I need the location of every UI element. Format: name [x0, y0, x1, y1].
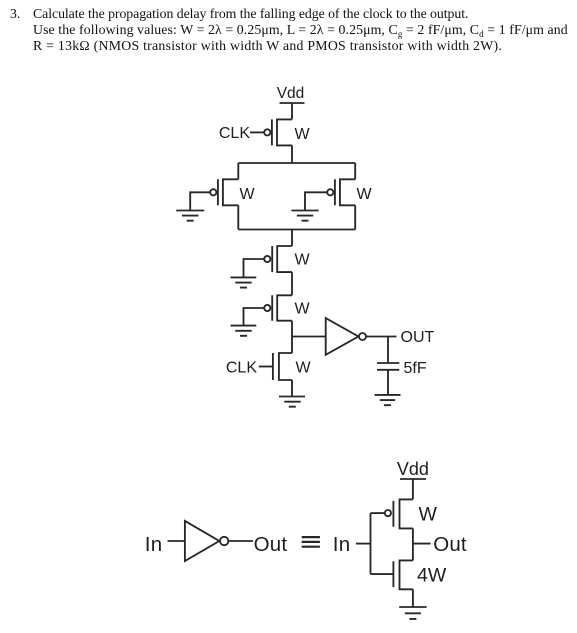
wire MN source to ground	[412, 589, 414, 607]
svg-text:W: W	[240, 186, 256, 203]
top rail wire	[238, 162, 355, 164]
ground (capacitor)	[375, 395, 401, 405]
svg-text:W: W	[419, 504, 438, 526]
wire rail to M4	[291, 230, 293, 247]
wire M5 to M6 / node X	[291, 321, 293, 353]
ground (M2 gate)	[176, 211, 204, 221]
svg-text:W: W	[295, 301, 311, 318]
svg-text:W: W	[296, 360, 312, 377]
svg-text:Vdd: Vdd	[277, 85, 305, 102]
svg-text:CLK: CLK	[219, 125, 250, 142]
transistor MP (PMOS, W)	[371, 499, 413, 528]
wire gate vertical	[370, 513, 372, 574]
ground (M3 gate)	[292, 211, 319, 221]
svg-text:5fF: 5fF	[404, 360, 427, 377]
transistor M2 (left PMOS, grounded gate, W)	[190, 179, 238, 210]
transistor M1 (PMOS, CLK gate, W)	[250, 119, 292, 145]
Vdd supply symbol (top figure)	[277, 85, 305, 119]
wire left branch lower	[237, 205, 239, 229]
wire In to inverter	[168, 540, 185, 542]
svg-text:4W: 4W	[417, 565, 447, 587]
svg-text:W: W	[357, 186, 373, 203]
wire M4 to M5	[291, 272, 293, 295]
svg-text:Vdd: Vdd	[397, 459, 429, 479]
ground (M6 source)	[279, 397, 305, 407]
wire M1 drain to top rail	[291, 145, 293, 163]
transistor MN (NMOS, 4W)	[371, 560, 413, 589]
wire left branch upper	[237, 163, 239, 179]
wire M6 source to ground	[291, 380, 293, 397]
problem statement line 3	[33, 38, 502, 54]
wire OUT node to capacitor	[387, 337, 389, 364]
svg-text:In: In	[333, 533, 351, 556]
equivalence symbol	[302, 537, 320, 547]
svg-text:W: W	[295, 252, 311, 269]
transistor M3 (right PMOS, grounded gate, W)	[305, 179, 355, 210]
wire Out node	[413, 543, 431, 545]
wire In to gate node	[356, 543, 371, 545]
capacitor C1 (5fF)	[377, 363, 399, 395]
svg-text:Out: Out	[433, 533, 467, 556]
inverter U2	[185, 521, 229, 561]
ground (M5 gate)	[231, 326, 257, 336]
svg-text:CLK: CLK	[226, 360, 257, 377]
problem statement line 1	[10, 6, 20, 22]
svg-text:In: In	[145, 533, 163, 556]
wire right branch lower	[354, 205, 356, 229]
transistor M6 (NMOS, CLK gate, W)	[259, 353, 292, 380]
bottom rail wire	[238, 229, 355, 231]
transistor M4 (PMOS, grounded gate, W)	[244, 246, 293, 277]
svg-text:OUT: OUT	[401, 329, 435, 346]
wire MP drain to Out node	[412, 528, 414, 560]
ground (M4 gate)	[231, 277, 257, 287]
wire inverter to Out	[229, 540, 253, 542]
svg-text:Out: Out	[254, 533, 288, 556]
problem statement line 2	[33, 22, 568, 38]
wire right branch upper	[354, 163, 356, 179]
wire inverter output to OUT	[366, 336, 396, 338]
ground (CMOS inverter)	[399, 607, 426, 619]
wire node X to inverter input	[292, 336, 326, 338]
inverter U1	[326, 318, 366, 355]
svg-text:W: W	[295, 126, 311, 143]
transistor M5 (PMOS, grounded gate, W)	[244, 295, 293, 325]
Vdd supply symbol (CMOS inverter)	[397, 459, 429, 499]
